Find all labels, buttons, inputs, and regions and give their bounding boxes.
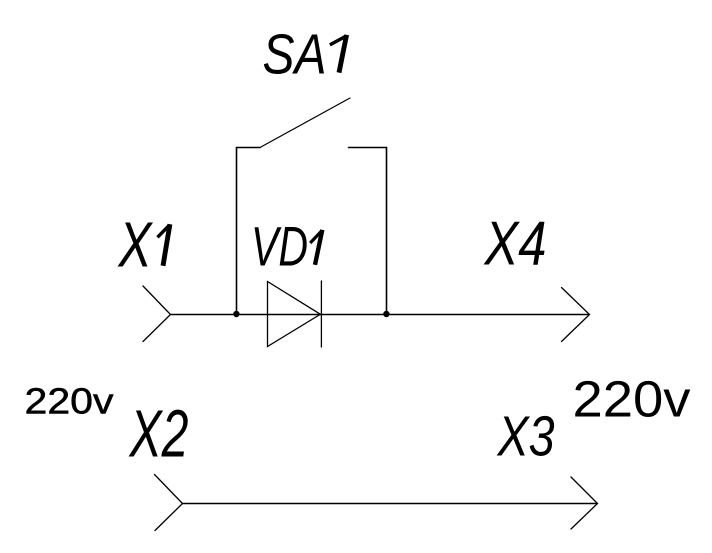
svg-text:X2: X2 [128, 398, 188, 472]
svg-text:220v: 220v [25, 381, 114, 422]
svg-text:X3: X3 [496, 405, 555, 469]
svg-text:VD: VD [251, 215, 308, 278]
svg-text:SA: SA [263, 23, 327, 87]
svg-text:X4: X4 [483, 209, 547, 279]
svg-text:X: X [117, 210, 154, 281]
svg-text:220v: 220v [573, 371, 692, 428]
